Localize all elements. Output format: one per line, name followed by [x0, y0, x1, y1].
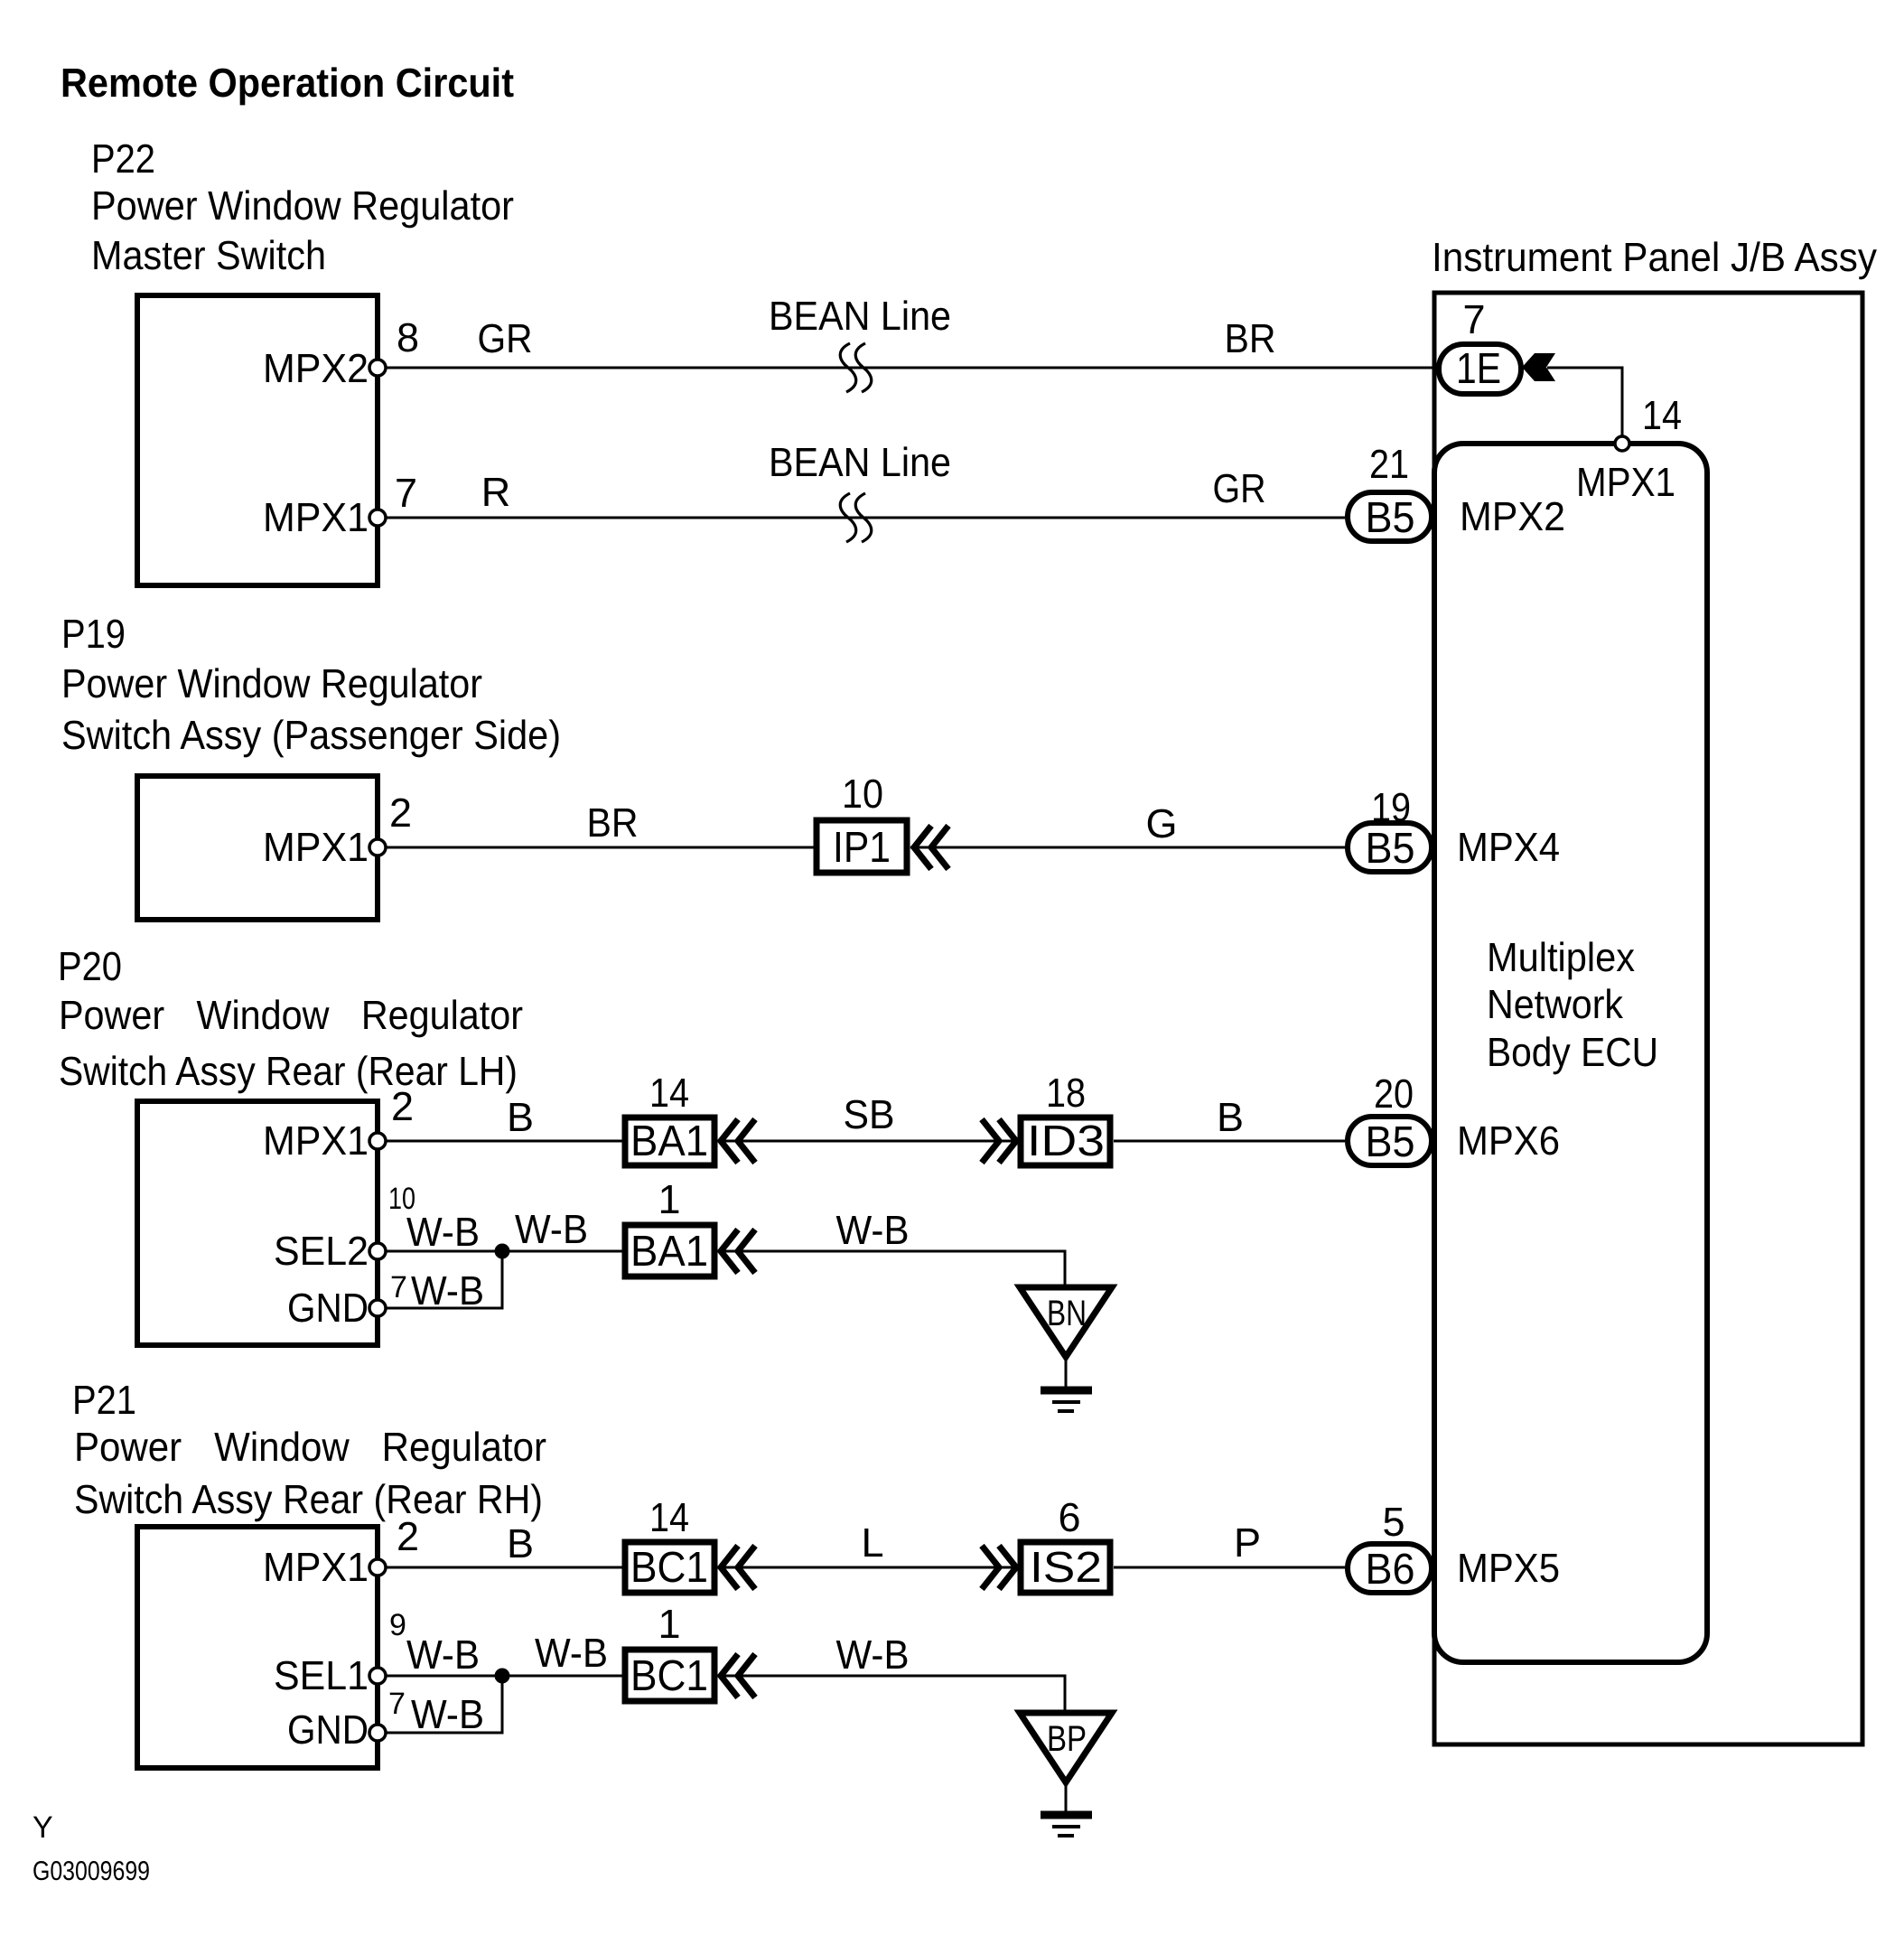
connector label P19 Power Window Regulator Switch Assy (Passenger Side) — [61, 611, 561, 758]
pin GND circle (P21) — [369, 1725, 386, 1741]
junction dot SEL1/GND — [495, 1669, 510, 1684]
svg-text:B: B — [507, 1094, 534, 1140]
svg-text:W-B: W-B — [406, 1632, 480, 1678]
wire W-B from SEL2 to BA1 pin 1 — [378, 1250, 622, 1253]
svg-text:Body ECU: Body ECU — [1487, 1029, 1658, 1075]
svg-text:B: B — [507, 1520, 534, 1566]
chevrons after IP1 — [914, 826, 948, 869]
wire W-B from BA1 pin 1 to BN ground — [717, 1251, 1065, 1287]
svg-text:Switch Assy (Passenger Side): Switch Assy (Passenger Side) — [61, 712, 561, 758]
connector BC1 pin 1 box — [625, 1650, 714, 1701]
svg-text:Instrument Panel J/B Assy: Instrument Panel J/B Assy — [1432, 234, 1877, 280]
chevrons after BC1 pin 1 — [721, 1654, 755, 1697]
ground BP — [1020, 1713, 1112, 1836]
svg-text:ID3: ID3 — [1027, 1117, 1105, 1165]
svg-text:Power Window Regulator: Power Window Regulator — [61, 660, 482, 706]
label Multiplex Network Body ECU — [1487, 934, 1658, 1075]
svg-text:GR: GR — [1213, 465, 1266, 511]
svg-text:IP1: IP1 — [833, 824, 891, 872]
svg-text:BC1: BC1 — [630, 1652, 708, 1700]
chevrons before IS2 — [982, 1546, 1016, 1589]
svg-text:IS2: IS2 — [1030, 1544, 1102, 1592]
svg-text:Power Window Regulator: Power Window Regulator — [74, 1424, 546, 1470]
pin GND circle (P20) — [369, 1300, 386, 1316]
svg-text:L: L — [861, 1520, 883, 1566]
svg-text:MPX1: MPX1 — [263, 494, 369, 540]
svg-text:MPX6: MPX6 — [1457, 1117, 1560, 1164]
svg-text:8: 8 — [397, 314, 419, 360]
wire GND to junction — [378, 1251, 502, 1308]
svg-text:B5: B5 — [1366, 825, 1415, 873]
arrow into 1E — [1522, 353, 1555, 381]
svg-text:Switch Assy Rear (Rear RH): Switch Assy Rear (Rear RH) — [74, 1476, 543, 1522]
component P22 box — [137, 295, 378, 585]
svg-text:MPX2: MPX2 — [263, 345, 369, 391]
svg-text:GND: GND — [287, 1285, 369, 1331]
svg-text:B: B — [1217, 1094, 1244, 1140]
wire B from ID3 to B5 pin 20 — [1114, 1140, 1345, 1143]
chevrons before ID3 — [982, 1119, 1016, 1163]
svg-text:W-B: W-B — [411, 1691, 484, 1737]
svg-text:1: 1 — [658, 1601, 680, 1647]
svg-text:SB: SB — [844, 1091, 895, 1137]
svg-text:5: 5 — [1382, 1499, 1405, 1545]
svg-text:14: 14 — [649, 1070, 689, 1116]
svg-text:P19: P19 — [61, 611, 126, 657]
connector B5 pin 19 oval — [1348, 823, 1432, 873]
svg-text:GR: GR — [478, 315, 533, 361]
svg-text:BP: BP — [1047, 1719, 1087, 1759]
wire G from IP1 to B5 pin 19 — [910, 846, 1345, 849]
component P20 box — [137, 1101, 378, 1345]
connector BA1 pin 14 box — [625, 1117, 714, 1165]
svg-text:W-B: W-B — [515, 1206, 588, 1252]
chevrons after BC1 — [721, 1546, 755, 1589]
connector label P21 Power Window Regulator Switch Assy Rear (Rear RH) — [72, 1377, 546, 1522]
connector IS2 box — [1021, 1542, 1110, 1593]
svg-text:G03009699: G03009699 — [33, 1856, 150, 1886]
component Multiplex Network Body ECU rounded box — [1434, 444, 1707, 1662]
svg-text:MPX1: MPX1 — [263, 1544, 369, 1590]
svg-text:P22: P22 — [91, 136, 155, 182]
connector BC1 pin 14 box — [625, 1542, 714, 1593]
svg-text:BR: BR — [1225, 315, 1276, 361]
svg-text:21: 21 — [1369, 441, 1409, 487]
connector label P20 Power Window Regulator Switch Assy Rear (Rear LH) — [58, 943, 523, 1094]
pin MPX1 circle (P22) — [369, 510, 386, 526]
svg-text:Y: Y — [33, 1810, 53, 1845]
svg-text:7: 7 — [388, 1687, 406, 1721]
wire B from P21 MPX1 to BC1 — [378, 1566, 622, 1569]
svg-text:B5: B5 — [1366, 1118, 1415, 1166]
svg-text:P20: P20 — [58, 943, 122, 989]
svg-text:10: 10 — [842, 771, 883, 817]
connector ID3 box — [1021, 1117, 1110, 1165]
svg-text:BEAN Line: BEAN Line — [769, 439, 951, 485]
svg-text:6: 6 — [1058, 1494, 1080, 1540]
svg-text:Remote Operation Circuit: Remote Operation Circuit — [61, 60, 514, 106]
svg-text:14: 14 — [649, 1494, 689, 1540]
svg-text:G: G — [1145, 800, 1177, 846]
connector B5 pin 20 oval — [1348, 1117, 1432, 1166]
svg-text:W-B: W-B — [411, 1267, 484, 1314]
svg-text:R: R — [481, 469, 511, 515]
svg-text:2: 2 — [397, 1513, 419, 1559]
svg-text:Power Window Regulator: Power Window Regulator — [59, 992, 523, 1038]
svg-text:Network: Network — [1487, 981, 1623, 1027]
svg-text:BC1: BC1 — [630, 1544, 708, 1592]
svg-text:BN: BN — [1047, 1294, 1087, 1333]
wire BR from P19 MPX1 to IP1 — [378, 846, 814, 849]
svg-text:W-B: W-B — [836, 1632, 910, 1678]
connector label P22 Power Window Regulator Master Switch — [91, 136, 514, 278]
wire GND to junction (P21) — [378, 1676, 502, 1733]
pin SEL1 circle — [369, 1668, 386, 1684]
component P19 box — [137, 776, 378, 920]
pin MPX1 circle (P20) — [369, 1133, 386, 1149]
connector 1E oval — [1439, 344, 1521, 394]
svg-text:W-B: W-B — [535, 1630, 608, 1676]
svg-text:MPX1: MPX1 — [263, 1117, 369, 1164]
wire W-B from SEL1 to BC1 pin 1 — [378, 1675, 622, 1678]
svg-text:Multiplex: Multiplex — [1487, 934, 1635, 980]
svg-text:MPX1: MPX1 — [263, 824, 369, 870]
svg-text:9: 9 — [389, 1608, 406, 1642]
wire L from BC1 to IS2 — [717, 1566, 1018, 1569]
svg-text:BA1: BA1 — [630, 1117, 708, 1165]
svg-text:20: 20 — [1374, 1071, 1414, 1117]
svg-text:MPX4: MPX4 — [1457, 824, 1560, 870]
svg-text:BR: BR — [587, 800, 639, 846]
svg-text:Switch Assy Rear (Rear LH): Switch Assy Rear (Rear LH) — [59, 1048, 518, 1094]
connector BA1 pin 1 box — [625, 1225, 714, 1276]
pin MPX1 circle (P19) — [369, 839, 386, 856]
ground BN — [1020, 1287, 1112, 1411]
svg-text:7: 7 — [1462, 296, 1485, 342]
svg-text:1: 1 — [658, 1176, 680, 1222]
wire from arrow to node 14 — [1547, 368, 1622, 435]
connector B5 pin 21 oval — [1348, 492, 1432, 542]
pin SEL2 circle — [369, 1243, 386, 1259]
svg-text:14: 14 — [1642, 392, 1682, 438]
svg-text:2: 2 — [389, 790, 412, 836]
svg-text:BEAN Line: BEAN Line — [769, 293, 951, 339]
svg-text:SEL1: SEL1 — [274, 1652, 369, 1698]
svg-text:1E: 1E — [1456, 345, 1501, 393]
pin MPX2 circle — [369, 360, 386, 376]
wire W-B from BC1 pin 1 to BP ground — [717, 1676, 1065, 1713]
svg-text:P: P — [1234, 1520, 1261, 1566]
wire SB from BA1 to ID3 — [717, 1140, 1018, 1143]
break symbol wire 2 — [840, 493, 872, 542]
wire R from P22 MPX1 to B5 pin 21 — [378, 517, 1345, 519]
svg-text:Power Window Regulator: Power Window Regulator — [91, 182, 514, 229]
svg-text:GND: GND — [287, 1707, 369, 1753]
svg-text:SEL2: SEL2 — [274, 1228, 369, 1274]
chevrons after BA1 pin 1 — [721, 1230, 755, 1273]
svg-text:MPX5: MPX5 — [1457, 1545, 1560, 1591]
svg-text:B5: B5 — [1366, 494, 1415, 542]
component P21 box — [137, 1527, 378, 1768]
wire B from P20 MPX1 to BA1 — [378, 1140, 622, 1143]
wire P from IS2 to B6 pin 5 — [1114, 1566, 1345, 1569]
svg-text:BA1: BA1 — [630, 1228, 708, 1276]
svg-text:MPX1: MPX1 — [1576, 459, 1675, 505]
connector IP1 box — [817, 820, 907, 873]
chevrons after BA1 — [721, 1119, 755, 1163]
node 14 circle — [1615, 436, 1629, 451]
wire GR from P22 MPX2 pin to 1E — [378, 367, 1437, 369]
svg-text:W-B: W-B — [836, 1207, 910, 1253]
svg-text:18: 18 — [1046, 1070, 1086, 1116]
svg-text:7: 7 — [390, 1270, 407, 1304]
svg-text:7: 7 — [395, 470, 417, 516]
break symbol wire 1 — [840, 343, 872, 392]
svg-text:P21: P21 — [72, 1377, 136, 1423]
connector B6 pin 5 oval — [1348, 1544, 1432, 1594]
svg-text:W-B: W-B — [406, 1209, 480, 1255]
component Instrument Panel J/B box — [1434, 293, 1862, 1744]
pin MPX1 circle (P21) — [369, 1559, 386, 1576]
svg-text:2: 2 — [391, 1083, 414, 1129]
svg-text:MPX2: MPX2 — [1460, 493, 1565, 539]
svg-text:B6: B6 — [1366, 1546, 1415, 1594]
junction dot SEL2/GND — [495, 1244, 510, 1259]
svg-text:Master Switch: Master Switch — [91, 232, 326, 278]
